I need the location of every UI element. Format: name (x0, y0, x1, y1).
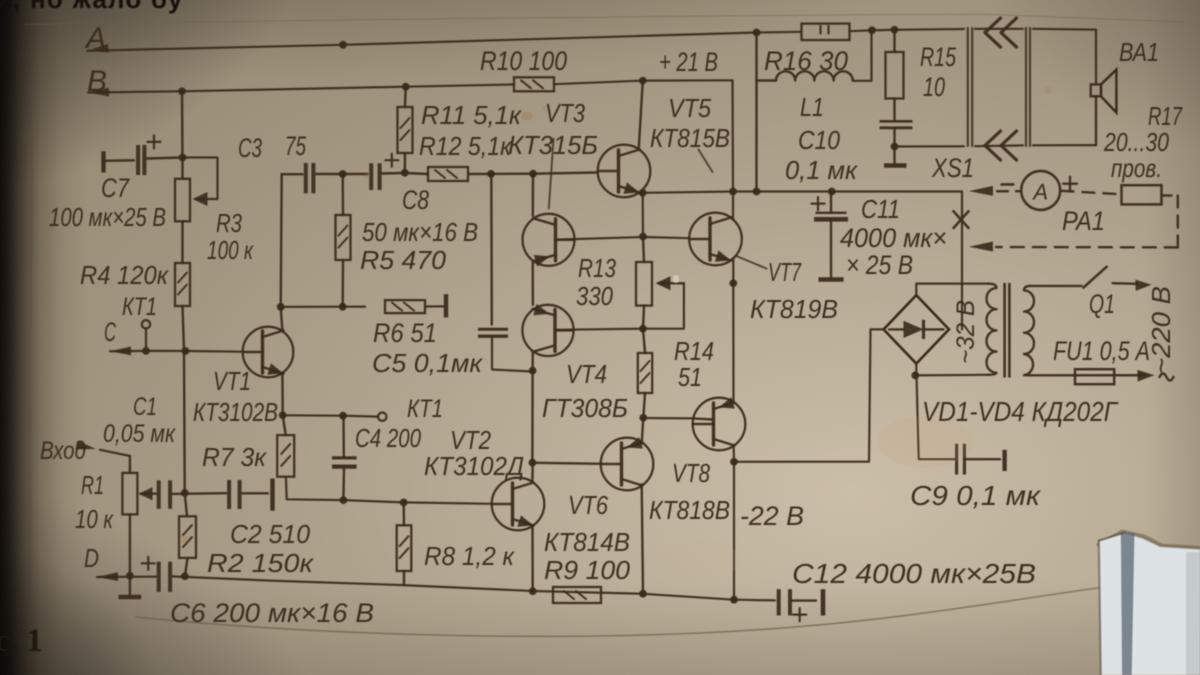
svg-text:0,05 мк: 0,05 мк (103, 420, 176, 448)
svg-text:VT3: VT3 (545, 98, 585, 128)
svg-text:R5 470: R5 470 (360, 245, 447, 275)
svg-text:R16 30: R16 30 (764, 46, 848, 76)
svg-text:КТ3102Д: КТ3102Д (424, 451, 524, 481)
svg-text:КТ818В: КТ818В (649, 495, 730, 525)
svg-text:R7 3к: R7 3к (202, 442, 268, 472)
svg-text:75: 75 (285, 131, 307, 161)
svg-text:КТ819В: КТ819В (750, 294, 838, 324)
svg-text:С6 200 мк×16 В: С6 200 мк×16 В (170, 598, 374, 628)
svg-text:С11: С11 (861, 194, 900, 224)
svg-text:VD1-VD4 КД202Г: VD1-VD4 КД202Г (922, 396, 1119, 427)
svg-text:R2 150к: R2 150к (207, 548, 315, 578)
svg-text:С8: С8 (402, 185, 429, 215)
svg-text:R13: R13 (578, 253, 616, 283)
svg-text:ГТ308Б: ГТ308Б (542, 393, 628, 423)
svg-text:С10: С10 (798, 125, 840, 155)
svg-text:R1: R1 (81, 470, 104, 500)
svg-text:R15: R15 (920, 42, 957, 72)
svg-text:R3: R3 (216, 208, 242, 238)
svg-text:VT7: VT7 (768, 257, 802, 287)
svg-text:50 мк×16 В: 50 мк×16 В (362, 217, 478, 247)
svg-text:+ 21 В: + 21 В (659, 47, 718, 77)
svg-text:4000 мк×: 4000 мк× (840, 223, 947, 253)
svg-text:КТ815В: КТ815В (650, 123, 730, 153)
svg-text:С2 510: С2 510 (230, 519, 311, 549)
svg-text:А: А (84, 22, 106, 55)
svg-text:-22 В: -22 В (740, 501, 804, 531)
svg-text:с. 1: с. 1 (0, 623, 43, 659)
svg-text:С5 0,1мк: С5 0,1мк (372, 348, 484, 378)
svg-text:100 к: 100 к (207, 235, 254, 265)
svg-text:В: В (87, 65, 107, 98)
svg-text:С7: С7 (101, 173, 130, 203)
svg-text:VT6: VT6 (568, 490, 608, 520)
svg-text:R10 100: R10 100 (480, 46, 567, 76)
svg-text:~220 В: ~220 В (1146, 286, 1176, 374)
svg-text:R4 120к: R4 120к (80, 260, 170, 290)
svg-text:С: С (104, 317, 116, 347)
svg-text:D: D (84, 543, 99, 573)
svg-text:КТ1: КТ1 (122, 293, 157, 321)
svg-text:А: А (1031, 179, 1048, 204)
svg-text:КТ315Б: КТ315Б (508, 130, 598, 160)
svg-text:10 к: 10 к (75, 504, 114, 534)
svg-text:VT4: VT4 (566, 359, 607, 389)
svg-text:Вход: Вход (40, 437, 86, 465)
svg-text:VT8: VT8 (672, 458, 710, 488)
svg-text:~32 В: ~32 В (952, 300, 980, 364)
svg-text:КТ3102В: КТ3102В (193, 397, 278, 427)
svg-text:× 25 В: × 25 В (846, 250, 913, 280)
svg-text:С3: С3 (238, 133, 262, 163)
svg-text:Q1: Q1 (1089, 289, 1115, 319)
svg-text:XS1: XS1 (931, 153, 974, 183)
svg-text:ВА1: ВА1 (1119, 37, 1159, 67)
svg-text:пров.: пров. (1111, 153, 1162, 183)
svg-text:С12 4000 мк×25В: С12 4000 мк×25В (792, 558, 1036, 589)
svg-text:100 мк×25 В: 100 мк×25 В (49, 202, 166, 232)
svg-text:КТ1: КТ1 (407, 395, 443, 423)
svg-text:R6 51: R6 51 (373, 318, 437, 348)
svg-text:330: 330 (576, 281, 613, 311)
svg-text:КТ814В: КТ814В (544, 527, 630, 557)
svg-text:РА1: РА1 (1062, 206, 1105, 236)
svg-text:R8 1,2 к: R8 1,2 к (424, 541, 516, 571)
svg-text:51: 51 (678, 362, 702, 392)
svg-text:R11 5,1к: R11 5,1к (421, 100, 523, 130)
svg-text:и, но жало бу: и, но жало бу (0, 0, 184, 14)
svg-text:VT5: VT5 (668, 93, 711, 123)
svg-text:С1: С1 (133, 393, 157, 421)
svg-text:0,1 мк: 0,1 мк (785, 155, 859, 185)
svg-text:10: 10 (923, 72, 945, 102)
svg-text:С4 200: С4 200 (355, 423, 421, 453)
svg-text:R12 5,1к: R12 5,1к (419, 131, 513, 161)
svg-text:L1: L1 (800, 92, 824, 122)
svg-text:VT1: VT1 (213, 366, 251, 396)
svg-text:С9 0,1 мк: С9 0,1 мк (910, 480, 1042, 511)
svg-text:FU1 0,5 А: FU1 0,5 А (1053, 336, 1150, 366)
svg-text:R9 100: R9 100 (544, 555, 631, 585)
